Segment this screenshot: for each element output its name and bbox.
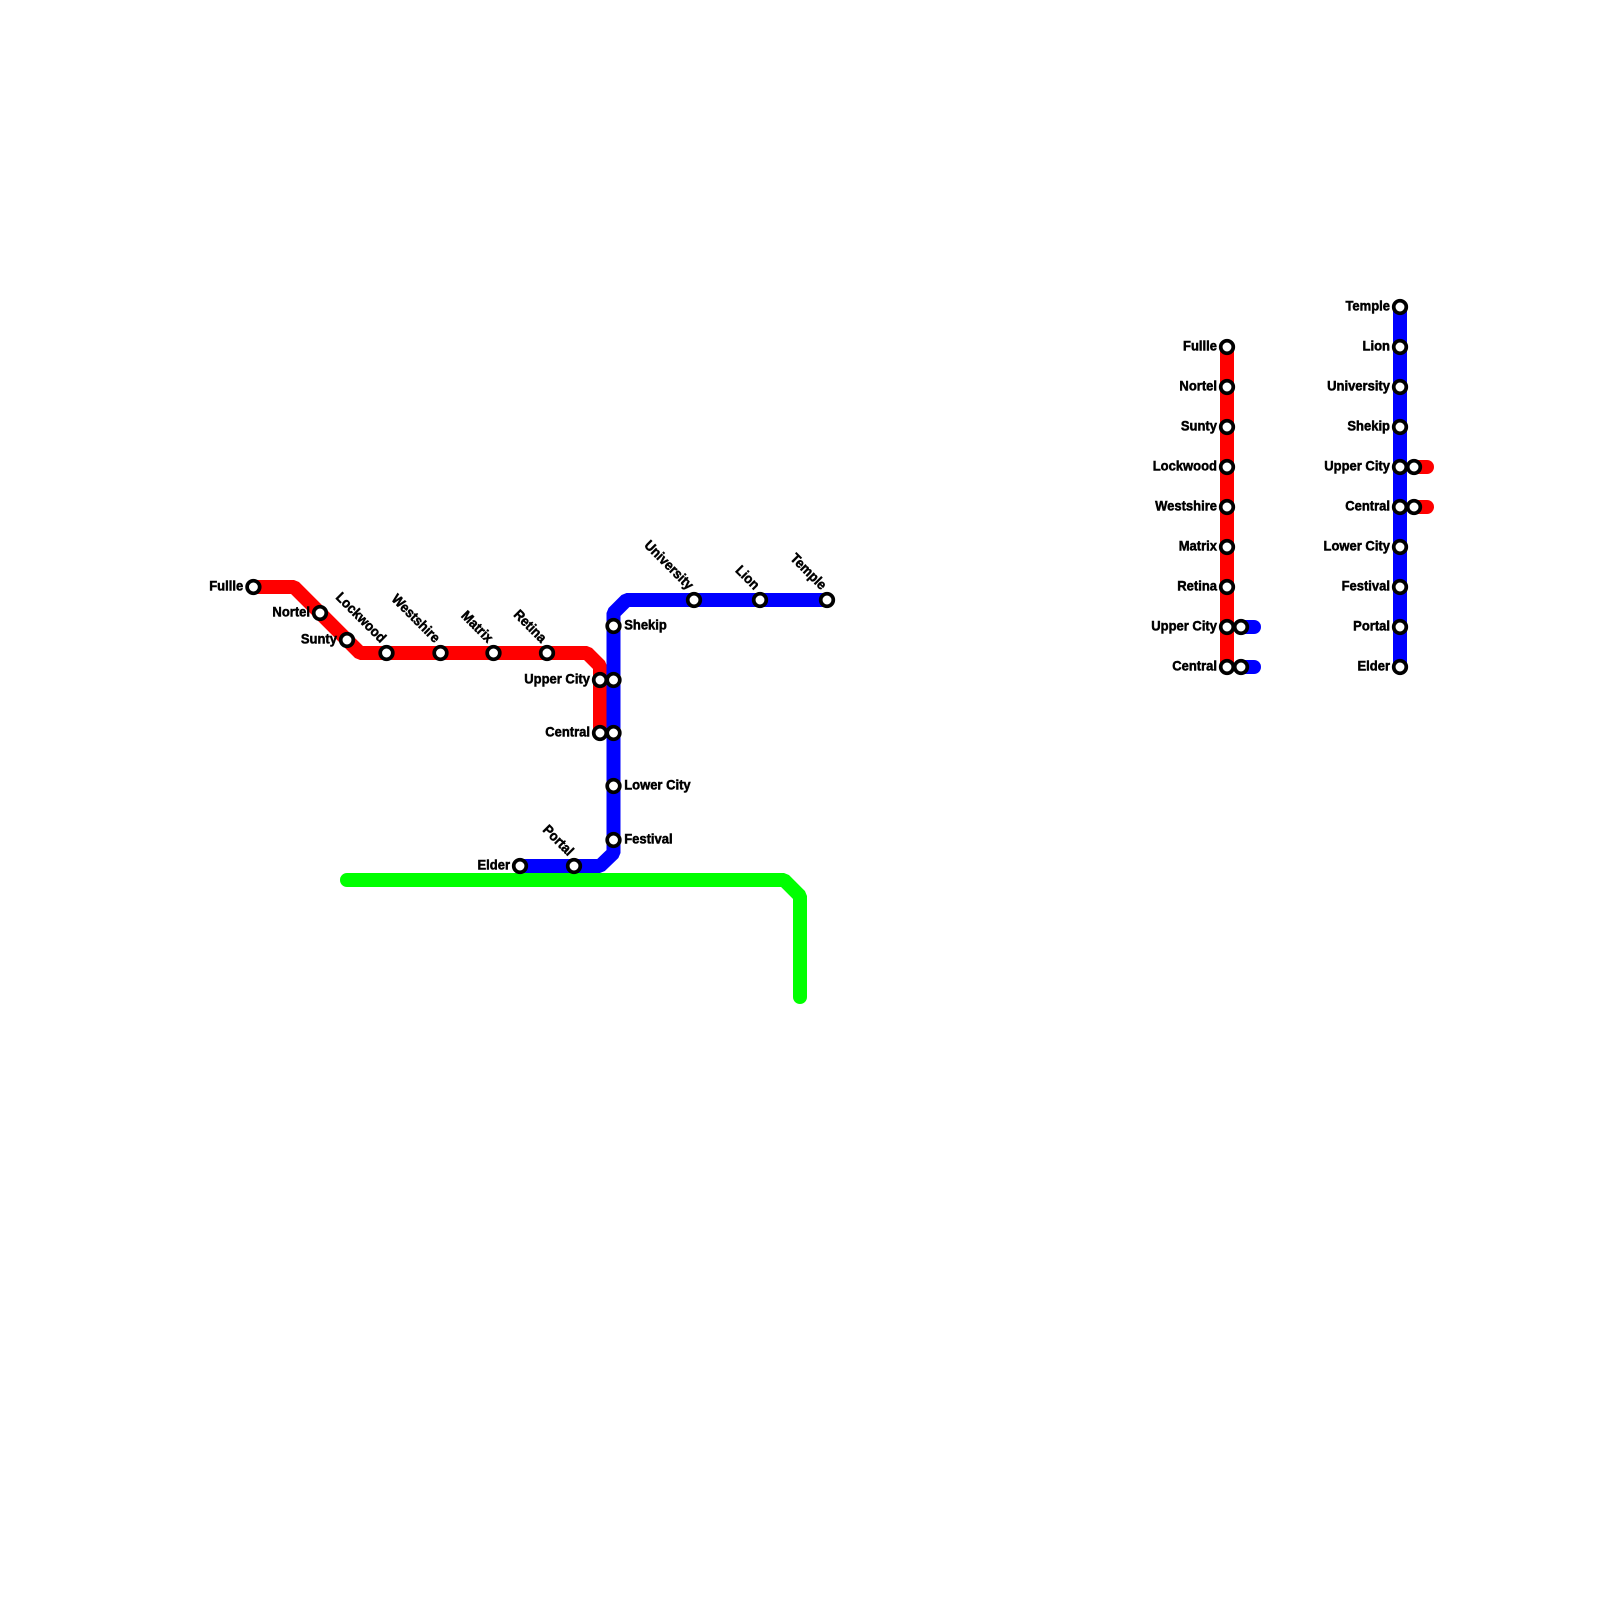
station University (blue diagram) xyxy=(1394,381,1407,394)
label Nortel (red diagram) xyxy=(1179,378,1217,394)
green line (main map) xyxy=(347,880,800,997)
label Lion (blue diagram) xyxy=(1363,338,1390,354)
transfer circle at Upper City (blue diagram) xyxy=(1408,461,1421,474)
station Lockwood (red diagram) xyxy=(1221,461,1234,474)
svg-text:Fullle: Fullle xyxy=(209,578,243,594)
svg-text:Temple: Temple xyxy=(1345,298,1390,314)
label Shekip (main map) xyxy=(624,617,667,633)
station Central blue (main map) xyxy=(607,727,620,740)
station Central (blue diagram) xyxy=(1394,501,1407,514)
svg-text:Upper City: Upper City xyxy=(1324,458,1390,474)
station Fullle (main map) xyxy=(247,581,260,594)
svg-text:Upper City: Upper City xyxy=(1151,618,1217,634)
svg-text:Retina: Retina xyxy=(1177,578,1217,594)
svg-text:Central: Central xyxy=(1345,498,1390,514)
label Portal (main map) (rotated) xyxy=(540,822,577,859)
label Central (red diagram) xyxy=(1172,658,1217,674)
label Lower City (blue diagram) xyxy=(1324,538,1391,554)
station Lion (blue diagram) xyxy=(1394,341,1407,354)
label Festival (blue diagram) xyxy=(1342,578,1390,594)
station Temple (blue diagram) xyxy=(1394,301,1407,314)
label Westshire (main map) (rotated) xyxy=(389,591,444,646)
label Central (main map) xyxy=(545,724,590,740)
label Lion (main map) (rotated) xyxy=(732,562,762,592)
label Fullle (red diagram) xyxy=(1183,338,1217,354)
svg-text:Shekip: Shekip xyxy=(1347,418,1390,434)
svg-text:Festival: Festival xyxy=(624,831,672,847)
svg-text:Nortel: Nortel xyxy=(272,604,310,620)
station Central (red diagram) xyxy=(1221,661,1234,674)
svg-text:Portal: Portal xyxy=(1353,618,1390,634)
blue line (main map) xyxy=(520,600,827,866)
label University (blue diagram) xyxy=(1327,378,1390,394)
station Retina (red diagram) xyxy=(1221,581,1234,594)
station Nortel (main map) xyxy=(314,607,327,620)
station Matrix (main map) xyxy=(487,647,500,660)
label Temple (blue diagram) xyxy=(1345,298,1390,314)
label Nortel (main map) xyxy=(272,604,310,620)
station University (main map) xyxy=(688,594,701,607)
station Westshire (main map) xyxy=(434,647,447,660)
station Shekip (blue diagram) xyxy=(1394,421,1407,434)
label Shekip (blue diagram) xyxy=(1347,418,1390,434)
transfer circle at Central (red diagram) xyxy=(1235,661,1248,674)
label Lockwood (red diagram) xyxy=(1153,458,1217,474)
station Portal (blue diagram) xyxy=(1394,621,1407,634)
station Upper City blue (main map) xyxy=(607,674,620,687)
label Retina (red diagram) xyxy=(1177,578,1217,594)
station Temple (main map) xyxy=(821,594,834,607)
station Lion (main map) xyxy=(754,594,767,607)
svg-text:Fullle: Fullle xyxy=(1183,338,1217,354)
station Upper City red (main map) xyxy=(594,674,607,687)
label Elder (blue diagram) xyxy=(1357,658,1390,674)
label Festival (main map) xyxy=(624,831,672,847)
station Portal (main map) xyxy=(568,860,581,873)
station Fullle (red diagram) xyxy=(1221,341,1234,354)
label Upper City (blue diagram) xyxy=(1324,458,1390,474)
station Elder (blue diagram) xyxy=(1394,661,1407,674)
label Matrix (main map) (rotated) xyxy=(458,608,496,646)
station Elder (main map) xyxy=(514,860,527,873)
svg-text:Matrix: Matrix xyxy=(1179,538,1218,554)
svg-text:Lower City: Lower City xyxy=(1324,538,1391,554)
station Nortel (red diagram) xyxy=(1221,381,1234,394)
label Retina (main map) (rotated) xyxy=(511,607,550,646)
blue line (diagram) xyxy=(1393,307,1407,667)
label Matrix (red diagram) xyxy=(1179,538,1218,554)
label Elder (main map) xyxy=(477,857,510,873)
transfer circle at Upper City (red diagram) xyxy=(1235,621,1248,634)
red transfer stub at Central (blue diagram) xyxy=(1414,500,1427,514)
label Sunty (red diagram) xyxy=(1181,418,1218,434)
station Festival (main map) xyxy=(607,834,620,847)
station Lockwood (main map) xyxy=(380,647,393,660)
svg-text:Lockwood: Lockwood xyxy=(1153,458,1217,474)
svg-text:Upper City: Upper City xyxy=(524,671,590,687)
svg-text:Lion: Lion xyxy=(1363,338,1390,354)
label Lockwood (main map) (rotated) xyxy=(333,589,389,645)
label Sunty (main map) xyxy=(301,631,338,647)
station Festival (blue diagram) xyxy=(1394,581,1407,594)
svg-text:Central: Central xyxy=(545,724,590,740)
svg-text:Sunty: Sunty xyxy=(1181,418,1218,434)
svg-text:Nortel: Nortel xyxy=(1179,378,1217,394)
red line (diagram) xyxy=(1220,347,1234,667)
red line (main map) xyxy=(253,587,600,733)
station Westshire (red diagram) xyxy=(1221,501,1234,514)
station Retina (main map) xyxy=(541,647,554,660)
station Central red (main map) xyxy=(594,727,607,740)
svg-text:Festival: Festival xyxy=(1342,578,1390,594)
transfer circle at Central (blue diagram) xyxy=(1408,501,1421,514)
svg-text:Central: Central xyxy=(1172,658,1217,674)
red transfer stub at Upper City (blue diagram) xyxy=(1414,460,1427,474)
station Upper City (blue diagram) xyxy=(1394,461,1407,474)
label Temple (main map) (rotated) xyxy=(787,550,830,593)
svg-text:Elder: Elder xyxy=(477,857,510,873)
label Upper City (red diagram) xyxy=(1151,618,1217,634)
station Sunty (main map) xyxy=(341,634,354,647)
blue transfer stub at Central (red diagram) xyxy=(1241,660,1254,674)
label Lower City (main map) xyxy=(624,777,691,793)
label Central (blue diagram) xyxy=(1345,498,1390,514)
label Fullle (main map) xyxy=(209,578,243,594)
station Lower City (main map) xyxy=(607,780,620,793)
svg-text:Sunty: Sunty xyxy=(301,631,338,647)
svg-text:Lower City: Lower City xyxy=(624,777,691,793)
station Matrix (red diagram) xyxy=(1221,541,1234,554)
svg-text:University: University xyxy=(1327,378,1390,394)
svg-text:Shekip: Shekip xyxy=(624,617,667,633)
label Upper City (main map) xyxy=(524,671,590,687)
svg-text:Elder: Elder xyxy=(1357,658,1390,674)
station Shekip (main map) xyxy=(607,620,620,633)
label Portal (blue diagram) xyxy=(1353,618,1390,634)
blue transfer stub at Upper City (red diagram) xyxy=(1241,620,1254,634)
label University (main map) (rotated) xyxy=(641,537,697,593)
svg-text:Westshire: Westshire xyxy=(1155,498,1217,514)
station Lower City (blue diagram) xyxy=(1394,541,1407,554)
label Westshire (red diagram) xyxy=(1155,498,1217,514)
station Upper City (red diagram) xyxy=(1221,621,1234,634)
station Sunty (red diagram) xyxy=(1221,421,1234,434)
